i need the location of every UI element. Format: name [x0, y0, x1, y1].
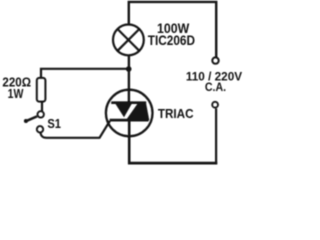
- terminal top: [212, 57, 218, 63]
- triac triangle up: [126, 104, 150, 121]
- wire right bottom lead: [215, 108, 217, 164]
- triac triangle down: [114, 102, 133, 118]
- wire branch to resistor: [41, 69, 129, 78]
- lamp X1 100W: [113, 25, 144, 56]
- triac top bar: [111, 101, 146, 104]
- resistor R1 220ohm 1W: [37, 78, 46, 102]
- wire lamp bottom to triac MT2: [128, 55, 130, 104]
- node junction dot: [126, 66, 132, 72]
- triac Q1 body: [106, 90, 153, 137]
- wire bottom rail: [128, 162, 217, 165]
- wire top rail: [129, 2, 216, 58]
- terminal bottom: [212, 102, 218, 108]
- triac bottom bar: [110, 119, 149, 122]
- svg-text:TRIAC: TRIAC: [158, 106, 194, 121]
- svg-text:1W: 1W: [8, 86, 25, 101]
- switch S1 lever: [24, 116, 37, 123]
- switch S1 bottom contact: [37, 126, 43, 132]
- svg-text:S1: S1: [47, 116, 61, 131]
- svg-text:C.A.: C.A.: [205, 80, 226, 94]
- wire triac MT1 lead: [128, 120, 131, 164]
- switch S1 top contact: [38, 111, 44, 117]
- svg-text:TIC206D: TIC206D: [148, 33, 195, 48]
- wire switch to triac gate: [40, 121, 109, 138]
- wire resistor bottom lead: [41, 102, 43, 112]
